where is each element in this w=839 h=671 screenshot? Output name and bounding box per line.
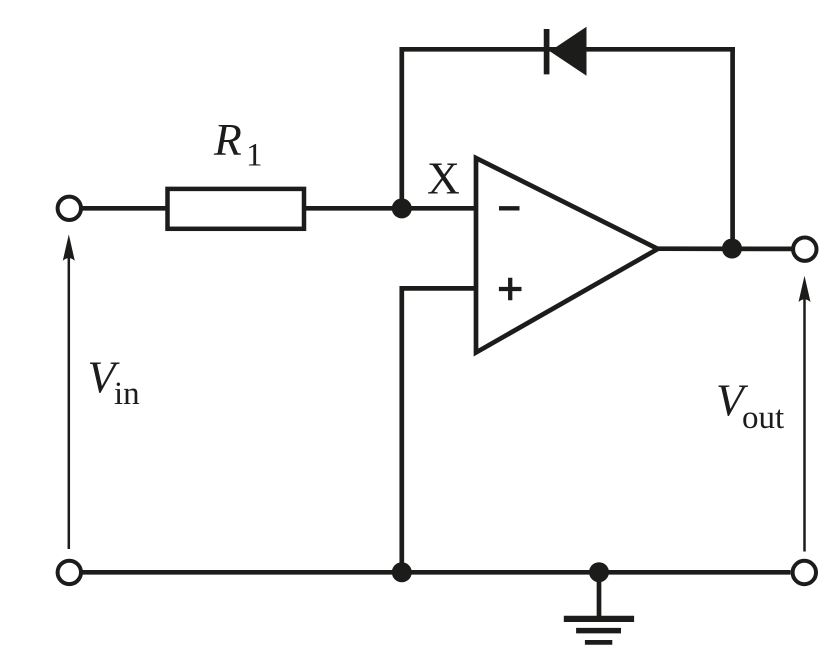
- Vout arrow shaft: [803, 290, 806, 552]
- wire feedback right vertical: [730, 47, 735, 249]
- svg-text:1: 1: [246, 138, 263, 174]
- ground symbol: [564, 572, 634, 642]
- wire feedback top horizontal: [400, 47, 735, 52]
- diode D1 triangle: [550, 27, 587, 76]
- resistor R1: [168, 189, 305, 229]
- terminal bottom-left (open circle): [58, 561, 81, 584]
- op-amp U1: [476, 158, 658, 353]
- wire feedback left vertical: [399, 47, 404, 208]
- node X: [392, 198, 412, 218]
- Vout arrow head: [799, 276, 811, 302]
- svg-text:X: X: [427, 152, 460, 203]
- svg-text:in: in: [114, 376, 140, 412]
- wire non-inverting drop vertical: [399, 286, 404, 572]
- wire non-inverting input horizontal: [400, 286, 480, 291]
- wire input to resistor: [80, 206, 170, 211]
- wire bottom rail: [81, 570, 791, 575]
- svg-text:R: R: [213, 114, 242, 165]
- Vin arrow head: [63, 234, 75, 260]
- op-amp minus sign: [499, 206, 520, 210]
- terminal input (open circle): [58, 197, 81, 220]
- wire resistor to op-amp inverting input: [302, 206, 479, 211]
- terminal bottom-right (open circle): [793, 561, 816, 584]
- node dot bottom (non-inverting): [392, 562, 412, 582]
- wire op-amp output: [655, 246, 792, 251]
- Vin arrow shaft: [68, 250, 71, 549]
- output node dot: [722, 239, 742, 259]
- diode D1 cathode bar: [544, 29, 550, 74]
- ground node dot: [589, 562, 609, 582]
- terminal output (open circle): [793, 238, 816, 261]
- svg-text:out: out: [742, 400, 784, 436]
- op-amp plus sign: [499, 278, 522, 301]
